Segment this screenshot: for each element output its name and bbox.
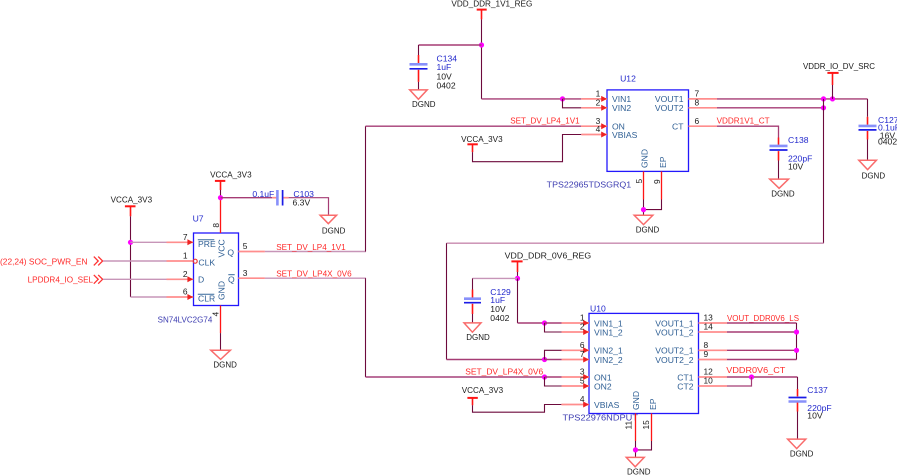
capacitor C137 220pF 10V xyxy=(789,385,832,421)
svg-text:Q: Q xyxy=(227,248,234,258)
ground DGND under C138 xyxy=(770,179,795,198)
svg-text:6: 6 xyxy=(695,116,700,126)
ground DGND under C127 xyxy=(859,160,885,180)
wire VOUT1_1 run xyxy=(727,322,797,324)
wire to PRE pin 7 xyxy=(131,241,167,243)
wire junction to pin1 xyxy=(545,322,562,324)
node VDD_DDR_1V1_REG power xyxy=(451,0,532,19)
capacitor C127 0.1uF 16V 0402 xyxy=(859,115,897,147)
svg-text:D: D xyxy=(198,275,204,285)
pin 7 VOUT1 xyxy=(655,89,717,105)
wire junction down to VIN1_1 xyxy=(517,278,519,323)
svg-text:DGND: DGND xyxy=(790,448,814,458)
pin 2 D xyxy=(167,269,205,285)
wire VOUT2_1 run xyxy=(727,349,797,351)
wire C137 to ground xyxy=(797,412,799,440)
pin 6 CT xyxy=(672,116,717,132)
pin 8 VOUT2 xyxy=(655,98,717,114)
svg-text:DGND: DGND xyxy=(466,332,490,342)
wire power stem to junction xyxy=(220,190,222,198)
svg-text:VCCA_3V3: VCCA_3V3 xyxy=(210,169,252,179)
wire C138 to ground xyxy=(778,161,780,180)
wire GND/EP join xyxy=(644,200,662,210)
svg-text:14: 14 xyxy=(704,322,714,332)
svg-text:DGND: DGND xyxy=(322,225,346,235)
svg-text:ON2: ON2 xyxy=(594,381,612,391)
svg-text:7: 7 xyxy=(183,232,188,242)
svg-text:VCCA_3V3: VCCA_3V3 xyxy=(462,385,504,395)
svg-text:9: 9 xyxy=(652,179,662,184)
pin 8 VOUT2_1 xyxy=(655,340,727,356)
svg-text:CT2: CT2 xyxy=(677,381,693,391)
wire junction to VIN1 xyxy=(563,98,582,100)
svg-text:EP: EP xyxy=(658,156,668,168)
node VDDR_IO_DV_SRC power xyxy=(803,61,875,85)
svg-text:CT: CT xyxy=(672,122,684,132)
node junction VOUT2 xyxy=(821,105,826,110)
svg-text:VIN2_2: VIN2_2 xyxy=(594,355,623,365)
wire C137 drop xyxy=(797,377,799,389)
wire CT net xyxy=(717,126,779,137)
pin 12 CT1 xyxy=(677,367,727,383)
svg-text:DGND: DGND xyxy=(636,224,660,234)
wire VOUT tie vertical xyxy=(796,323,798,360)
node SOC_PWR_EN off-page connector xyxy=(0,257,103,267)
wire to CLR pin 6 xyxy=(131,296,167,298)
pin 8 VCC top xyxy=(211,198,227,258)
node junction VOUT1_2 xyxy=(794,329,799,334)
svg-text:GND: GND xyxy=(631,391,641,410)
wire VOUT1 run xyxy=(717,98,868,100)
pin 4 VBIAS xyxy=(561,394,619,410)
ground DGND right of C103 xyxy=(320,215,345,235)
svg-text:7: 7 xyxy=(580,349,585,359)
wire Qbar net run xyxy=(265,277,366,279)
svg-text:4: 4 xyxy=(596,124,601,134)
wire rail to C134 xyxy=(419,44,482,46)
svg-text:15: 15 xyxy=(641,420,651,430)
wire CT1 run xyxy=(727,376,798,378)
wire left vertical to VIN2 row xyxy=(446,243,448,359)
pin 11 GND bottom xyxy=(624,391,642,441)
svg-text:DGND: DGND xyxy=(213,359,237,369)
wire C127 to ground xyxy=(867,140,869,161)
wire junction to pin7 xyxy=(545,359,562,361)
svg-text:Q: Q xyxy=(228,274,235,284)
svg-text:VDDR_IO_DV_SRC: VDDR_IO_DV_SRC xyxy=(803,61,875,71)
svg-text:1: 1 xyxy=(183,251,188,261)
svg-text:DGND: DGND xyxy=(771,189,795,199)
svg-text:11: 11 xyxy=(624,420,634,429)
svg-text:VIN2: VIN2 xyxy=(612,103,631,113)
ground DGND under U7 xyxy=(211,350,237,369)
wire power stem down xyxy=(481,19,483,99)
node VCCA_3V3 left xyxy=(111,195,153,217)
wire VCCA rail vertical to PRE/CLR xyxy=(130,216,132,297)
node junction VOUT2_1 xyxy=(794,348,799,353)
pin 2 VIN1_2 xyxy=(562,322,623,338)
capacitor C134 1uF 10V 0402 xyxy=(410,53,458,90)
pin 7 PRE xyxy=(167,232,216,249)
svg-text:TPS22965TDSGRQ1: TPS22965TDSGRQ1 xyxy=(547,180,632,190)
pin 9 VOUT2_2 xyxy=(655,349,727,365)
pin 3 ON xyxy=(581,116,625,132)
svg-text:3: 3 xyxy=(243,268,248,278)
wire pin4 to ground xyxy=(220,333,222,350)
node junction VCC rail xyxy=(218,195,223,200)
node junction CT1 xyxy=(749,374,754,379)
capacitor C103 0.1uF 6.3V xyxy=(252,189,314,208)
svg-text:0402: 0402 xyxy=(437,81,456,91)
wire VOUT2_2 run xyxy=(727,359,797,361)
svg-text:10: 10 xyxy=(704,376,714,386)
svg-text:SN74LVC2G74: SN74LVC2G74 xyxy=(158,315,213,325)
svg-text:5: 5 xyxy=(243,241,248,251)
svg-text:8: 8 xyxy=(695,98,700,108)
wire SOC_PWR_EN to CLK xyxy=(103,260,167,262)
wire power stem to rail xyxy=(517,272,519,278)
svg-text:VOUT1_2: VOUT1_2 xyxy=(655,327,693,337)
svg-text:LPDDR4_IO_SEL: LPDDR4_IO_SEL xyxy=(28,274,94,284)
node junction power stem xyxy=(830,96,835,101)
svg-text:VDD_DDR_1V1_REG: VDD_DDR_1V1_REG xyxy=(451,0,532,9)
pin 10 CT2 xyxy=(677,376,727,392)
node junction VOUT1/down xyxy=(821,96,826,101)
wire long vertical right xyxy=(823,99,825,243)
svg-text:DGND: DGND xyxy=(862,170,886,180)
wire C134 drop xyxy=(418,45,420,55)
wire VOUT2 run xyxy=(717,107,824,109)
wire C129 to ground xyxy=(472,314,474,323)
wire Q net vertical up xyxy=(365,126,367,251)
pin 4 VBIAS xyxy=(581,124,637,140)
ground DGND under C134 xyxy=(410,90,436,109)
wire step to VIN1_2 xyxy=(545,323,562,332)
pin 6 CLR xyxy=(167,287,216,304)
svg-text:U12: U12 xyxy=(620,74,636,84)
svg-text:SET_DV_LP4X_0V6: SET_DV_LP4X_0V6 xyxy=(465,366,543,376)
pin 1 CLK xyxy=(167,251,216,268)
svg-text:GND: GND xyxy=(640,149,650,168)
pin 2 VIN2 xyxy=(581,98,631,114)
svg-text:U10: U10 xyxy=(590,303,606,313)
svg-text:DGND: DGND xyxy=(627,467,651,475)
wire LPDDR4_IO_SEL to D xyxy=(103,278,167,280)
capacitor C129 1uF 10V 0402 xyxy=(464,287,511,323)
svg-text:9: 9 xyxy=(704,349,709,359)
pin 1 VIN1 xyxy=(581,89,631,105)
pin 14 VOUT1_2 xyxy=(655,322,727,338)
wire step to ON2 xyxy=(545,377,562,386)
svg-text:EP: EP xyxy=(648,398,658,410)
pin 4 GND bottom xyxy=(210,281,226,333)
wire CT2 run and step up xyxy=(727,377,752,386)
svg-text:SET_DV_LP4_1V1: SET_DV_LP4_1V1 xyxy=(510,116,580,126)
wire ON net horizontal xyxy=(366,125,582,127)
pin 1 VIN1_1 xyxy=(562,313,623,329)
power switch U12 TPS22965TDSGRQ1 xyxy=(547,74,689,190)
pin 13 VOUT1_1 xyxy=(655,313,727,329)
svg-text:SET_DV_LP4_1V1: SET_DV_LP4_1V1 xyxy=(276,242,346,252)
wire rail to VIN1_1 junction xyxy=(518,322,545,324)
svg-text:5: 5 xyxy=(634,179,644,184)
svg-text:2: 2 xyxy=(183,269,188,279)
wire step up to VIN2_1 xyxy=(545,350,562,359)
svg-text:2: 2 xyxy=(596,98,601,108)
node junction 0V6 rail xyxy=(515,276,520,281)
wire VIN2 row run xyxy=(447,359,545,361)
svg-text:C137: C137 xyxy=(807,385,828,395)
wire C134 to ground xyxy=(418,82,420,90)
wire VOUT1_2 run xyxy=(727,331,797,333)
svg-text:VCCA_3V3: VCCA_3V3 xyxy=(111,195,153,205)
svg-text:0402: 0402 xyxy=(878,137,897,147)
wire C129 drop xyxy=(472,278,474,289)
ground DGND under C129 xyxy=(464,323,490,342)
node junction top rail xyxy=(479,42,484,47)
node junction VIN2_2 xyxy=(542,357,547,362)
node LPDDR4_IO_SEL off-page connector xyxy=(28,274,103,284)
wire Q net run xyxy=(265,251,366,253)
svg-text:VDDR0V6_CT: VDDR0V6_CT xyxy=(726,365,786,375)
svg-text:0.1uF: 0.1uF xyxy=(252,189,274,199)
wire rail to C103 xyxy=(221,197,273,199)
wire VBIAS jog xyxy=(473,135,582,162)
pin 15 EP bottom xyxy=(641,398,658,441)
ground DGND under C137 xyxy=(788,439,814,458)
svg-text:VDD_DDR_0V6_REG: VDD_DDR_0V6_REG xyxy=(505,250,592,260)
svg-text:0402: 0402 xyxy=(490,313,509,323)
svg-text:10V: 10V xyxy=(788,161,804,171)
wire C103 to ground xyxy=(289,198,329,216)
node junction VIN1 xyxy=(560,96,565,101)
svg-text:(22,24) SOC_PWR_EN: (22,24) SOC_PWR_EN xyxy=(0,257,88,267)
capacitor C138 220pF 10V xyxy=(770,135,813,172)
svg-text:VOUT_DDR0V6_LS: VOUT_DDR0V6_LS xyxy=(727,313,799,323)
wire rail to VIN1 xyxy=(482,98,563,100)
svg-text:VBIAS: VBIAS xyxy=(612,130,638,140)
pin 3 ON1 xyxy=(562,367,612,383)
svg-text:C138: C138 xyxy=(788,135,809,145)
wire long run y243 xyxy=(447,242,824,244)
wire rail to C129 xyxy=(473,277,518,279)
wire step to VIN2 xyxy=(563,99,582,108)
node VCCA_3V3 above U7 xyxy=(210,169,252,190)
node VDD_DDR_0V6_REG power xyxy=(505,250,592,272)
wire C127 drop xyxy=(867,99,869,117)
svg-text:U7: U7 xyxy=(193,214,204,224)
svg-text:VCC: VCC xyxy=(217,239,227,257)
svg-text:VIN1_2: VIN1_2 xyxy=(594,327,623,337)
pin 5 ON2 xyxy=(562,376,612,392)
svg-text:10V: 10V xyxy=(807,411,823,421)
svg-text:DGND: DGND xyxy=(412,99,436,109)
svg-text:4: 4 xyxy=(580,394,585,404)
ground DGND under U10 xyxy=(626,457,650,475)
wire power stem to rail xyxy=(832,85,834,99)
svg-text:8: 8 xyxy=(211,223,221,228)
svg-text:PRE: PRE xyxy=(198,239,216,249)
wire junction to ON1 xyxy=(545,376,562,378)
svg-text:2: 2 xyxy=(580,322,585,332)
wire Qbar net vertical down xyxy=(365,278,367,377)
wire ON net run xyxy=(366,376,545,378)
node junction PRE xyxy=(128,240,133,245)
pin 7 VIN2_2 xyxy=(562,349,623,365)
svg-text:CLK: CLK xyxy=(198,258,215,268)
pin 6 VIN2_1 xyxy=(562,340,623,356)
node VCCA_3V3 for U10 VBIAS xyxy=(462,385,504,406)
svg-text:VOUT2_2: VOUT2_2 xyxy=(655,355,693,365)
svg-text:VOUT2: VOUT2 xyxy=(655,103,684,113)
svg-text:CLR: CLR xyxy=(198,293,215,303)
node junction VIN1_1 xyxy=(542,320,547,325)
pin 3 Q-bar xyxy=(228,268,265,284)
node junction ON1 xyxy=(542,374,547,379)
svg-text:VCCA_3V3: VCCA_3V3 xyxy=(461,134,503,144)
wire GND/EP join bottom xyxy=(636,441,652,450)
svg-text:VBIAS: VBIAS xyxy=(594,400,620,410)
svg-text:SET_DV_LP4X_0V6: SET_DV_LP4X_0V6 xyxy=(276,268,352,278)
svg-text:6: 6 xyxy=(183,287,188,297)
flip-flop U7 SN74LVC2G74 xyxy=(158,214,239,325)
svg-text:6.3V: 6.3V xyxy=(293,198,311,208)
wire VBIAS jog xyxy=(473,405,562,413)
node junction GND xyxy=(641,207,646,212)
pin 5 Q xyxy=(227,241,265,257)
ground DGND under U12 xyxy=(634,215,659,234)
pin 9 EP bottom xyxy=(652,156,668,199)
pin 5 GND bottom xyxy=(634,149,650,200)
node VCCA_3V3 for U12 VBIAS xyxy=(461,134,503,152)
svg-text:GND: GND xyxy=(217,281,227,300)
node junction GND U10 xyxy=(633,447,638,452)
power switch U10 TPS22976NDPUT xyxy=(563,303,699,422)
svg-text:5: 5 xyxy=(580,376,585,386)
svg-text:VDDR1V1_CT: VDDR1V1_CT xyxy=(717,116,771,126)
svg-text:4: 4 xyxy=(210,312,220,317)
